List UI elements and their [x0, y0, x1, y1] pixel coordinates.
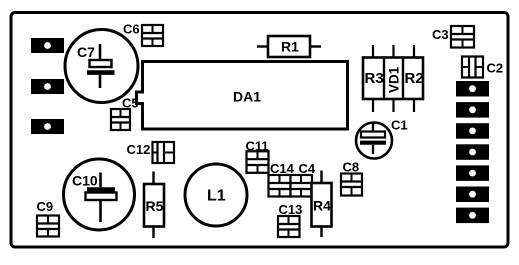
capacitor C3	[432, 26, 474, 48]
svg-text:R2: R2	[405, 70, 424, 87]
svg-text:C12: C12	[127, 142, 151, 157]
svg-text:VD1: VD1	[387, 66, 402, 93]
pad XS1-3	[31, 119, 64, 134]
pad XS1-1	[31, 38, 64, 53]
pad XS1-2	[31, 79, 64, 94]
pad XS2-4	[456, 144, 489, 160]
pad XS2-7	[456, 208, 489, 224]
pad XS2-5	[456, 165, 489, 181]
svg-text:C3: C3	[432, 27, 449, 42]
pad XS2-2	[456, 102, 489, 118]
trimmer capacitor C1	[356, 118, 408, 159]
svg-text:R3: R3	[365, 70, 384, 87]
capacitor C9	[37, 199, 60, 237]
svg-text:C2: C2	[487, 61, 504, 76]
svg-text:R4: R4	[313, 198, 331, 214]
capacitor C5	[111, 96, 139, 131]
svg-text:DA1: DA1	[233, 89, 261, 105]
resistor R5	[144, 172, 164, 239]
svg-text:C9: C9	[37, 199, 54, 214]
svg-text:L1: L1	[207, 188, 226, 205]
svg-text:C13: C13	[279, 202, 303, 217]
svg-text:R1: R1	[281, 39, 299, 55]
capacitor C6	[123, 22, 163, 47]
pad XS2-1	[456, 81, 489, 97]
capacitor C7	[65, 30, 138, 103]
resistor R1	[257, 36, 321, 57]
resistor R4	[312, 171, 332, 238]
svg-text:C1: C1	[391, 118, 408, 133]
svg-text:C10: C10	[72, 173, 98, 189]
capacitor C13	[278, 202, 302, 237]
pad XS2-6	[456, 187, 489, 203]
resistor R3 / diode VD1 / resistor R2 block	[363, 45, 424, 112]
pad XS2-3	[456, 123, 489, 139]
capacitor C11	[246, 139, 269, 173]
svg-text:C8: C8	[343, 160, 360, 175]
capacitor C2	[462, 57, 503, 78]
inductor L1	[185, 164, 247, 226]
capacitor C4	[291, 161, 316, 197]
capacitor C12	[127, 142, 175, 163]
svg-text:C4: C4	[299, 161, 316, 176]
svg-text:C7: C7	[77, 44, 95, 60]
svg-text:C6: C6	[123, 22, 140, 37]
svg-text:C14: C14	[270, 161, 295, 176]
svg-text:R5: R5	[146, 198, 164, 214]
capacitor C8	[341, 160, 362, 196]
capacitor C10	[64, 159, 135, 230]
capacitor C14	[269, 161, 295, 197]
IC DA1	[137, 62, 348, 130]
